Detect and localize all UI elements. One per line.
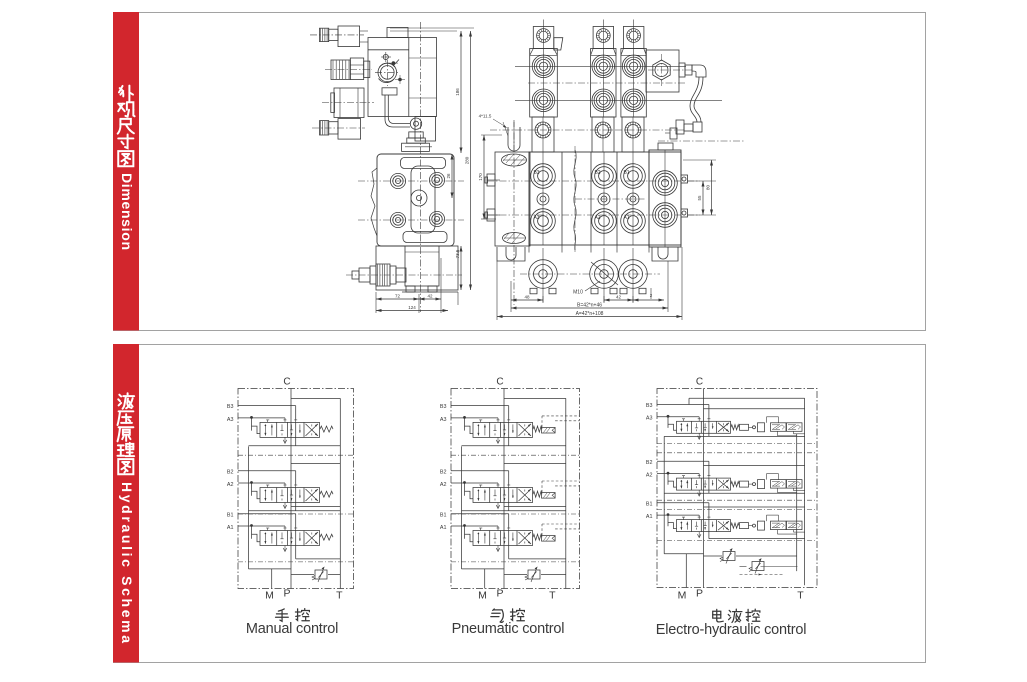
front view pilot tower 1 (533, 27, 554, 49)
dim 186 (390, 27, 474, 29)
side view pilot stem nuts (409, 132, 423, 138)
valve section B1/A1 spool (260, 531, 320, 546)
side view bottom extension lines (375, 292, 377, 313)
front view elbow fitting upper (679, 63, 685, 77)
spring of section 2 (533, 491, 542, 497)
spring+orifice of section 2 (731, 482, 739, 487)
svg-text:B3: B3 (227, 404, 234, 410)
svg-text:72: 72 (395, 294, 401, 299)
front view section B3/A3 ports (531, 164, 556, 189)
panel 1 red tab (113, 12, 139, 331)
drain arrow of section 1 (497, 437, 499, 442)
side view port A bottom-left (390, 212, 405, 227)
wire relief connections (504, 574, 527, 576)
front view neck pieces (532, 117, 554, 152)
dim 42a (419, 298, 441, 300)
panel 1 frame (114, 13, 926, 331)
section separator line 1 (657, 442, 817, 444)
section separator line 3 (451, 561, 580, 563)
wire M column (685, 554, 687, 588)
spring+orifice of section 3 (731, 523, 739, 528)
carryover loop of section 1 (504, 397, 566, 399)
svg-text:Dimension: Dimension (119, 173, 135, 250)
dim 170 (481, 134, 502, 136)
svg-text:26: 26 (446, 173, 451, 179)
dim 2 (633, 299, 664, 301)
drain arrow of section 1 (698, 433, 700, 438)
carryover loop of section 1 (291, 397, 340, 399)
manual lever of section 2 (667, 472, 670, 475)
front view section lower stubs (528, 245, 530, 253)
wire left rail to P (249, 568, 292, 570)
carryover loop of section 3 (704, 506, 805, 508)
wire P supply vertical (703, 389, 705, 588)
section separator line 3 (238, 561, 354, 563)
svg-text:280: 280 (465, 156, 470, 164)
drain arrow of section 2 (698, 490, 700, 495)
svg-text:A1: A1 (440, 525, 447, 531)
svg-text:A1: A1 (227, 525, 234, 531)
dim 124 (376, 310, 448, 312)
wire right rail (796, 434, 798, 571)
section separator line 2 (238, 513, 354, 515)
manual lever of section 1 (463, 416, 466, 419)
valve section B2/A2 spool (473, 488, 533, 503)
caption pneumatic control (491, 609, 503, 622)
svg-text:P: P (696, 588, 703, 600)
svg-text:M10: M10 (573, 290, 583, 296)
valve section B1/A1 spool (677, 520, 731, 532)
side view solenoid cartridge bottom (338, 119, 361, 140)
front view feet brackets (497, 247, 525, 261)
svg-text:A3: A3 (646, 416, 653, 422)
svg-text:80: 80 (706, 185, 711, 191)
panel 2 red tab (113, 344, 139, 663)
pneumatic pilot of section 2 (542, 493, 556, 499)
spring of section 3 (320, 534, 333, 540)
manual lever of section 1 (667, 415, 670, 418)
tab 2 title 液压原理图 Hydraulic Schema (118, 393, 135, 643)
side view port B top-right (429, 172, 444, 187)
relief valve RV2 (752, 562, 764, 571)
svg-text:M: M (678, 590, 687, 602)
svg-text:124: 124 (408, 305, 416, 310)
svg-text:M: M (478, 590, 487, 602)
carryover loop of section 2 (504, 463, 566, 465)
front view section B2/A2 ports (592, 164, 617, 189)
svg-text:A3: A3 (227, 417, 234, 423)
electro pilot valve of section 2 (771, 480, 787, 489)
svg-text:B1: B1 (440, 512, 447, 518)
spring of section 1 (320, 426, 333, 432)
wire left rail to P (664, 553, 703, 555)
relief valve RV1 (723, 552, 735, 561)
side view vertical centerline (420, 22, 422, 312)
side view screw dots (383, 54, 388, 59)
svg-text:186: 186 (455, 88, 460, 96)
manual lever of section 2 (250, 481, 253, 484)
svg-text:P: P (496, 588, 503, 600)
dim 80 (683, 159, 716, 161)
svg-text:C: C (696, 377, 703, 388)
panel 2 frame (114, 345, 926, 663)
svg-text:A3: A3 (440, 417, 447, 423)
svg-text:A3: A3 (533, 215, 539, 221)
svg-text:48: 48 (524, 295, 530, 300)
carryover loop of section 3 (291, 506, 340, 508)
svg-text:A2: A2 (440, 482, 447, 488)
front view elbow fitting lower (693, 122, 702, 132)
svg-text:B2: B2 (646, 460, 653, 466)
drain arrow of section 3 (497, 546, 499, 551)
svg-text:Electro-hydraulic control: Electro-hydraulic control (656, 622, 807, 638)
valve section B2/A2 spool (260, 488, 320, 503)
svg-text:B3: B3 (646, 403, 653, 409)
side view solenoid cartridge top (338, 26, 360, 47)
relief valve RV1 (315, 570, 327, 579)
front view body port centerlines (487, 180, 700, 182)
svg-text:4*11.5: 4*11.5 (479, 114, 492, 119)
front view valve body band (529, 152, 681, 245)
side view center spool circle (411, 190, 427, 206)
side view port centerlines (358, 180, 464, 182)
wire relief connections (291, 574, 314, 576)
spring of section 3 (533, 534, 542, 540)
dim 26 (451, 154, 453, 198)
dim 48 (511, 299, 543, 301)
spring of section 1 (533, 426, 542, 432)
side view lower housing (376, 246, 458, 290)
front view break wavy line (574, 150, 576, 250)
drain arrow of section 1 (284, 437, 286, 442)
carryover loop of section 3 (504, 506, 566, 508)
caption electro-hydraulic control (713, 609, 724, 622)
drain arrow of section 3 (698, 532, 700, 537)
svg-text:55: 55 (697, 195, 702, 201)
front view bottom ports (529, 260, 558, 289)
side view main valve body (377, 154, 454, 246)
side view feet (406, 286, 415, 292)
wire M column (271, 569, 273, 589)
front view M10 leader (591, 262, 618, 285)
svg-text:B2: B2 (227, 469, 234, 475)
drain arrow of section 3 (284, 546, 286, 551)
side view port A bottom-right (429, 211, 444, 226)
pneumatic pilot of section 3 (542, 536, 556, 542)
manual lever of section 3 (250, 524, 253, 527)
side view port B top-left (390, 173, 405, 188)
front view pilot tower 3 (623, 27, 644, 49)
section separator line 1 (238, 454, 354, 456)
dim 55 (688, 180, 716, 182)
side view body casting jags (371, 168, 377, 236)
section separator line 2 (657, 452, 817, 454)
carryover loop of section 2 (291, 463, 340, 465)
valve section B1/A1 spool (473, 531, 533, 546)
svg-text:A2: A2 (227, 482, 234, 488)
wire right rail (339, 398, 341, 588)
front view pilot tube (690, 77, 699, 122)
pneumatic pilot of section 1 (542, 427, 556, 433)
wire left rail (248, 446, 250, 569)
svg-text:42: 42 (427, 294, 433, 299)
svg-text:T: T (549, 590, 556, 602)
section separator line 2 (451, 513, 580, 515)
schematic pneu outer boundary box (451, 389, 580, 589)
svg-text:A2: A2 (646, 473, 653, 479)
svg-text:B1: B1 (646, 501, 653, 507)
side view pilot flange (382, 88, 397, 95)
side view pilot valve block (368, 38, 437, 117)
relief valve RV1 (528, 570, 540, 579)
manual lever of section 3 (667, 513, 670, 516)
drain arrow of section 2 (497, 503, 499, 508)
section separator line 3 (657, 499, 817, 501)
schematic electro outer boundary box (657, 389, 817, 588)
front view section B1/A1 ports (621, 164, 646, 189)
caption manual control (276, 609, 289, 621)
wire M column (484, 569, 486, 589)
electro pilot valve of section 3 (771, 521, 787, 530)
wire right rail (565, 398, 567, 588)
front view end cap mount bolts (487, 174, 495, 186)
carryover loop of section 2 (704, 465, 805, 467)
section separator line 1 (451, 454, 580, 456)
svg-text:A=42*n+108: A=42*n+108 (576, 311, 604, 317)
manual lever of section 3 (463, 524, 466, 527)
wire left rail (663, 436, 665, 553)
svg-text:C: C (283, 377, 290, 388)
svg-text:T: T (797, 590, 804, 602)
side view hex fitting (331, 60, 350, 80)
svg-text:B2: B2 (440, 469, 447, 475)
svg-text:Manual control: Manual control (246, 621, 338, 637)
svg-text:42: 42 (616, 295, 622, 300)
valve section B3/A3 spool (677, 421, 731, 433)
dim 73.5 (460, 246, 462, 290)
svg-text:C: C (496, 377, 503, 388)
svg-text:B3: B3 (533, 170, 539, 176)
wire RV2 connections (740, 566, 747, 568)
front view bottom extension lines (510, 281, 512, 312)
valve section B2/A2 spool (677, 478, 731, 490)
electro pilot valve of section 1 (771, 423, 787, 432)
schematic manual outer boundary box (238, 389, 354, 589)
spring of section 2 (320, 491, 333, 497)
section separator line 5 (657, 540, 817, 542)
svg-text:A2: A2 (594, 215, 600, 221)
manual lever of section 1 (250, 416, 253, 419)
front view end section ports (653, 171, 678, 196)
side view solenoid coil (334, 88, 364, 118)
dim 280 (470, 31, 472, 290)
svg-text:M: M (265, 590, 274, 602)
wire P supply vertical (503, 389, 505, 589)
drain arrow of section 2 (284, 503, 286, 508)
side view relief valve cylinder (352, 271, 359, 279)
front view tower port centerlines (515, 65, 686, 67)
side view ball valve circle (378, 63, 397, 82)
svg-text:A1: A1 (623, 215, 629, 221)
section separator line 4 (657, 509, 817, 511)
front view hex plug block (646, 50, 679, 92)
svg-text:B1: B1 (227, 512, 234, 518)
carryover loop of section 1 (704, 408, 805, 410)
dim B=42*n+46 (511, 307, 668, 309)
svg-text:P: P (283, 588, 290, 600)
svg-text:Pneumatic control: Pneumatic control (452, 621, 565, 637)
svg-text:73.5: 73.5 (455, 249, 460, 258)
svg-text:B2: B2 (594, 170, 600, 176)
dim 42b (604, 299, 633, 301)
front view pilot tower 2 (593, 27, 614, 49)
manual lever of section 2 (463, 481, 466, 484)
dim A=42*n+108 (497, 316, 682, 318)
front view section boundary centerline (574, 146, 576, 252)
svg-text:T: T (336, 590, 343, 602)
valve section B3/A3 spool (473, 422, 533, 437)
spring+orifice of section 1 (731, 425, 739, 430)
side view pilot drain pipe (385, 95, 410, 127)
wire left rail to P (462, 568, 505, 570)
wire P supply vertical (290, 389, 292, 589)
wire relief connections (704, 555, 723, 557)
tab 1 title 外观尺寸图 Dimension (118, 86, 135, 250)
svg-text:A1: A1 (646, 514, 653, 520)
wire top T feed (689, 397, 805, 399)
valve section B3/A3 spool (260, 422, 320, 437)
front view left end cap (495, 152, 530, 246)
svg-text:170: 170 (478, 173, 483, 181)
svg-text:B1: B1 (623, 170, 629, 176)
wire left rail (461, 446, 463, 569)
svg-text:B3: B3 (440, 404, 447, 410)
dim 72 (376, 298, 419, 300)
svg-text:B=42*n+46: B=42*n+46 (577, 303, 602, 309)
front view mounting slot 4x11.5 (508, 127, 520, 151)
